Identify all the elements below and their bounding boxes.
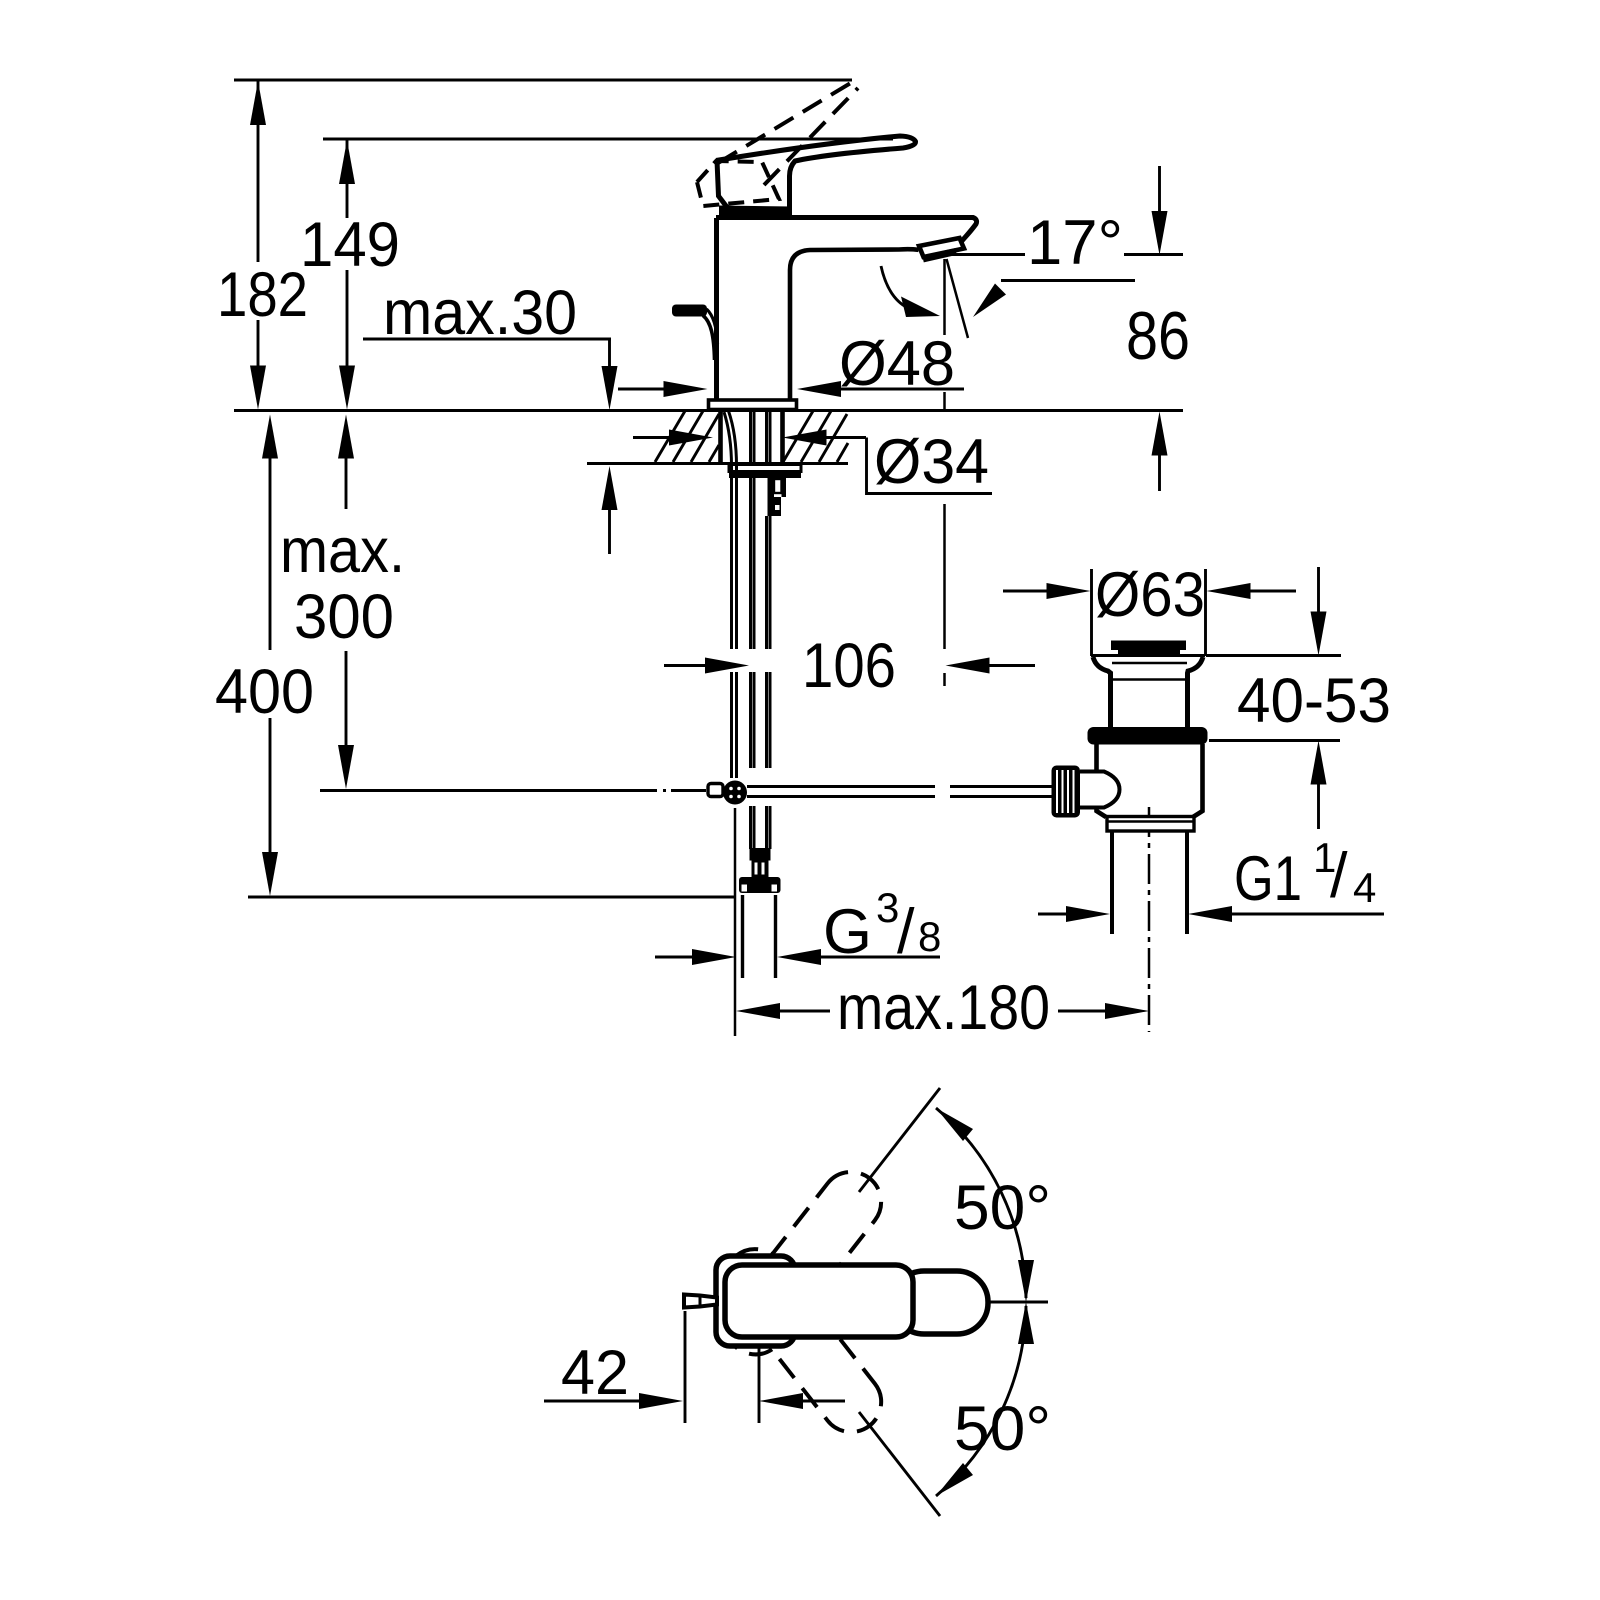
svg-text:/: / (897, 897, 915, 967)
svg-text:4: 4 (1353, 864, 1376, 911)
svg-text:G1: G1 (1234, 844, 1302, 914)
svg-text:400: 400 (215, 657, 314, 727)
svg-text:149: 149 (300, 210, 400, 280)
svg-text:42: 42 (561, 1338, 629, 1408)
svg-text:Ø63: Ø63 (1095, 560, 1205, 630)
svg-text:max.: max. (280, 516, 405, 586)
svg-text:3: 3 (876, 884, 899, 931)
svg-text:106: 106 (802, 631, 896, 701)
svg-text:Ø34: Ø34 (874, 427, 989, 497)
svg-text:G: G (823, 897, 872, 967)
svg-text:40-53: 40-53 (1237, 666, 1391, 736)
svg-text:17°: 17° (1027, 208, 1123, 278)
svg-text:182: 182 (217, 260, 308, 330)
svg-text:Ø48: Ø48 (839, 329, 955, 399)
svg-text:50°: 50° (954, 1173, 1051, 1243)
svg-text:50°: 50° (954, 1394, 1051, 1464)
svg-text:86: 86 (1126, 298, 1190, 374)
svg-text:8: 8 (918, 913, 941, 960)
svg-text:300: 300 (294, 582, 394, 652)
svg-text:max.30: max.30 (383, 278, 577, 348)
svg-text:1: 1 (1313, 834, 1336, 881)
svg-text:max.180: max.180 (837, 973, 1050, 1043)
